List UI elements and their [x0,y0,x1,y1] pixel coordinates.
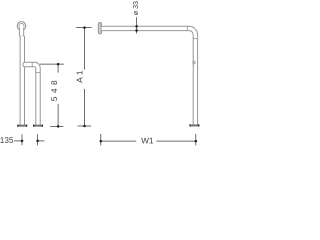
front foot plate (side view) [33,125,43,127]
dimension 135: extension tick right [37,134,39,145]
horizontal branch tube with elbow and front leg (side view) [24,62,40,124]
dimension W1: dot left [100,140,103,143]
dimension A1: top extension line at bar top [76,27,91,29]
mounting hole on floor leg [193,61,195,64]
dimension A1: upper line segment [84,28,86,70]
grab bar top and bottom outlines [102,25,189,27]
wall flange outer circle (side view) [17,22,26,31]
front leg tube (side view) [35,68,37,125]
dimension diameter 33: dot at bar bottom edge [135,29,138,32]
dimension 135: extension tick left [21,134,23,145]
dimension A1: bottom extension line at floor level [78,125,92,127]
dimension 548: lower line segment [57,104,59,127]
dimension W1: left line segment [101,140,136,142]
dimension W1: right line segment [157,140,196,142]
dimension 548: label (rotated) [51,81,57,101]
wall flange capsule (front view) [98,22,101,34]
rear foot plate (side view) [17,125,27,127]
dimension W1: extension tick right [195,134,197,146]
dimension 548: top extension line from branch tube centre [40,63,64,65]
dimension W1: dot right [195,140,198,143]
dimension 135: left line segment [14,140,22,142]
floor foot plate (front view) [190,125,200,127]
dimension A1: label (rotated) [77,71,83,83]
dimension 135: dot left [21,140,24,143]
dimension 135: right line segment [38,140,45,142]
elbow inner arc (front view) [189,31,193,35]
flange collar joint line [19,35,24,37]
dimension A1: top dot [83,26,86,29]
front leg weld seam [36,71,40,73]
horizontal grab bar with elbow and floor leg (front view) [102,26,198,124]
elbow outer arc (front view) [189,26,198,35]
branch tube weld seam [31,62,33,66]
dimension diameter 33: leader line [136,17,138,33]
wall flange inner circle (side view) [19,23,24,28]
dimension 135: label [0,137,13,143]
dimension A1: lower line segment [84,89,86,126]
elbow outer arc (side view) [35,62,41,68]
flange neck tube (side view) [19,26,23,36]
grab bar weld seam near elbow [186,26,188,30]
dimension 548: upper line segment [57,64,59,73]
elbow inner arc (side view) [35,67,36,68]
branch tube outline with rounded end cap [23,62,35,66]
dimension A1: bottom dot [83,125,86,128]
floor leg tube (front view) [192,35,194,125]
dimension diameter 33: label (rotated) [133,1,138,15]
dimension W1: label [141,138,153,144]
main vertical tube (side view, wall post) [20,36,24,124]
dimension 135: dot right [36,140,39,143]
dimension diameter 33: dot at bar top edge [135,25,138,28]
dimension 548: bottom extension line at floor level [50,125,63,127]
dimension 548: bottom dot [57,125,60,128]
dimension 548: top dot [57,63,60,66]
dimension W1: extension tick left [100,134,102,146]
floor leg weld seam [193,37,197,39]
